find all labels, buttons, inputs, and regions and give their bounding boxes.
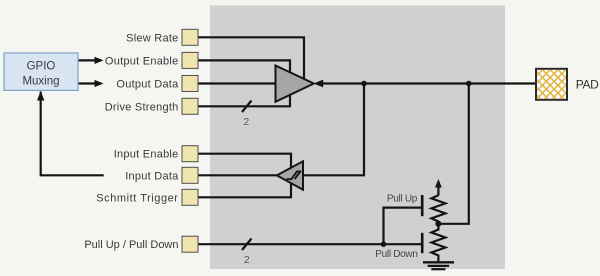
svg-text:PAD: PAD [576, 78, 599, 92]
svg-text:Input Data: Input Data [125, 170, 179, 182]
svg-text:Output Data: Output Data [116, 79, 179, 91]
svg-text:Pull Up / Pull Down: Pull Up / Pull Down [84, 239, 178, 251]
svg-text:Slew Rate: Slew Rate [126, 32, 178, 44]
svg-text:Pull Down: Pull Down [375, 249, 417, 260]
svg-text:Drive Strength: Drive Strength [105, 101, 179, 113]
svg-text:Schmitt Trigger: Schmitt Trigger [96, 192, 178, 204]
svg-text:Input Enable: Input Enable [114, 149, 179, 161]
svg-text:Muxing: Muxing [22, 75, 59, 87]
svg-text:Pull Up: Pull Up [387, 193, 418, 204]
svg-text:GPIO: GPIO [27, 61, 56, 73]
svg-text:Output Enable: Output Enable [105, 55, 179, 67]
svg-text:2: 2 [243, 116, 249, 128]
svg-text:2: 2 [244, 254, 250, 266]
